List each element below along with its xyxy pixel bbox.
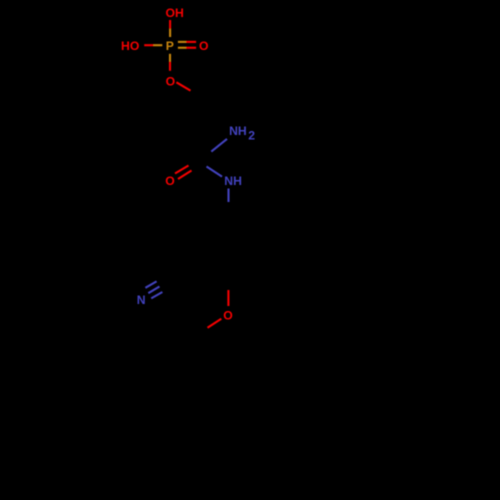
double bond P=O lower line (P half) — [178, 47, 186, 49]
bond Calpha-NH2 (blue half near N) — [211, 139, 227, 152]
svg-text:2: 2 — [248, 129, 255, 143]
bond P-O ester (red half near O) — [169, 62, 171, 71]
double bond P=O upper line (P half) — [178, 41, 186, 43]
bond NH-aryl (blue half near N) — [227, 189, 229, 203]
bond P-O ester (P half) — [169, 54, 171, 62]
double bond C=O lower line (red half near O) — [178, 171, 192, 180]
bond HO-P (P half) — [154, 44, 163, 46]
bond HO-P (red half near O) — [144, 44, 153, 46]
svg-text:N: N — [137, 293, 146, 307]
svg-text:NH: NH — [229, 124, 247, 138]
bond C-NH amide (blue half near N) — [207, 167, 223, 177]
svg-text:O: O — [165, 174, 174, 188]
bond O-CH2 benzyl (red half near O) — [208, 319, 222, 328]
bond P-OH (red half near O) — [169, 20, 171, 29]
svg-text:P: P — [166, 39, 174, 53]
svg-text:OH: OH — [166, 6, 184, 20]
svg-text:O: O — [199, 39, 208, 53]
svg-text:O: O — [223, 309, 232, 323]
nitrile triple bond line 2 (blue half near N) — [148, 287, 159, 294]
svg-text:O: O — [166, 75, 175, 89]
svg-text:HO: HO — [121, 39, 139, 53]
bond O-CH2 (red half near O) — [176, 82, 190, 90]
double bond C=O upper line (red half near O) — [175, 166, 189, 174]
double bond P=O upper line (O half) — [186, 41, 196, 43]
nitrile triple bond line 3 (blue half near N) — [151, 292, 162, 298]
bond aryl-O (red half near O) — [227, 290, 229, 306]
nitrile triple bond line 1 (blue half near N) — [145, 281, 156, 287]
bond P-OH (P half) — [169, 29, 171, 37]
double bond P=O lower line (O half) — [186, 47, 196, 49]
svg-text:NH: NH — [224, 174, 242, 188]
